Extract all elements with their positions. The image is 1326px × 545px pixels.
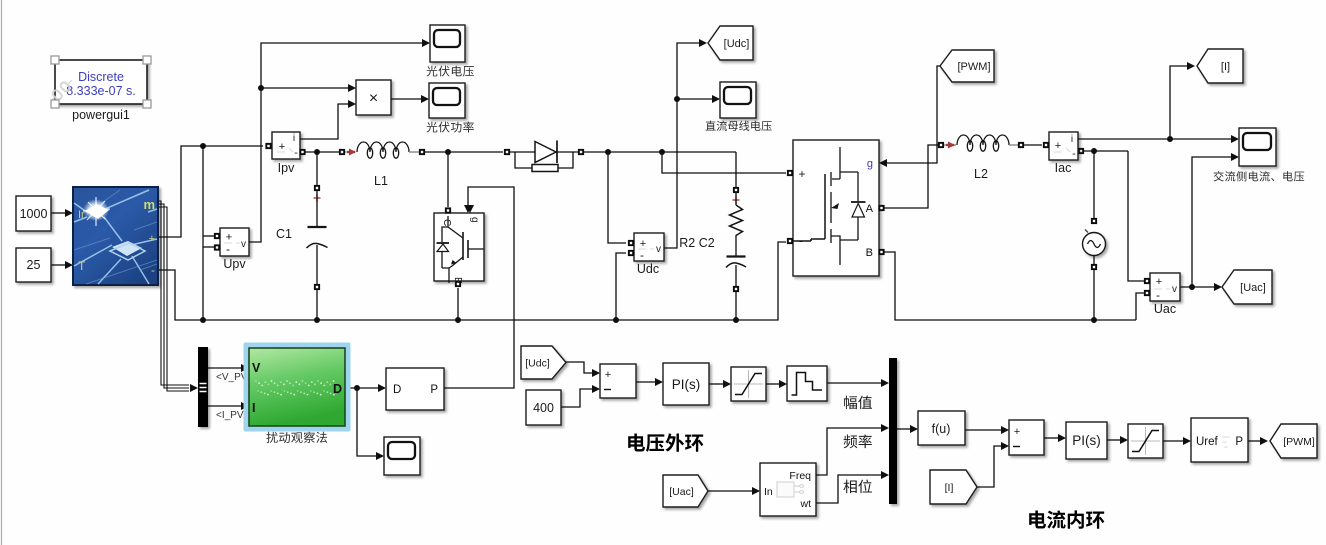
wire: AC rail up to Uac - [1136, 293, 1144, 320]
big label: current inner loop [1029, 510, 1104, 528]
sum block (voltage loop) [600, 364, 636, 398]
svg-text:A: A [866, 203, 874, 215]
wire: MPPT D output to D-P block and scope [347, 384, 386, 460]
svg-text:L2: L2 [974, 167, 988, 181]
svg-text:L1: L1 [374, 174, 388, 188]
svg-text:400: 400 [533, 401, 554, 415]
svg-text:8.333e-07 s.: 8.333e-07 s. [66, 84, 136, 98]
svg-text:[Udc]: [Udc] [724, 38, 750, 50]
RC branch R2 C2 [726, 152, 746, 320]
capacitor C1 [307, 152, 328, 320]
wire: Uref P to goto [PWM] [1248, 437, 1268, 445]
current measurement Ipv [265, 132, 305, 175]
scope: PV voltage [430, 25, 465, 62]
wire: Udc v output to goto [Udc] and DC-bus scope [664, 39, 720, 248]
diode D1 with snubber [504, 141, 584, 172]
wire: L1 to diode node [425, 149, 503, 155]
scope: DC bus voltage [720, 82, 756, 118]
svg-text:-: - [640, 248, 644, 262]
svg-text:f(u): f(u) [932, 422, 951, 436]
svg-text:v: v [1172, 284, 1177, 295]
from tag [I] [930, 470, 977, 504]
wire: sum2 to PI(s)2 [1044, 434, 1066, 442]
svg-text:[Uac]: [Uac] [1240, 282, 1266, 294]
svg-text:Discrete: Discrete [78, 70, 124, 84]
svg-text:-: - [1156, 288, 1160, 302]
wire: PI(s)2 to saturation2 [1107, 436, 1128, 444]
wire: node to Upv inputs and negative rail [200, 146, 215, 323]
svg-text:×: × [369, 90, 378, 107]
PLL block (Freq / wt) [760, 463, 816, 516]
wire: Iac i output to goto [I] and AC scope [1078, 62, 1239, 143]
svg-text:C: C [441, 219, 452, 226]
voltage measurement Upv [214, 228, 249, 271]
svg-text:1000: 1000 [20, 207, 48, 221]
svg-text:[I]: [I] [945, 482, 954, 494]
signal label: phase [843, 479, 872, 493]
svg-text:v: v [656, 244, 661, 255]
current measurement Iac [1043, 132, 1078, 175]
wire: f(u) to sum2 + [965, 426, 1009, 434]
svg-text:-: - [1072, 148, 1076, 160]
wire: node to Udc + [608, 152, 626, 243]
canvas left border [1, 0, 3, 545]
subsystem Uref to P (PWM) [1191, 418, 1248, 462]
wire: saturation to rate block [766, 380, 787, 388]
svg-text:m: m [143, 197, 155, 212]
inductor L1 [339, 142, 425, 158]
svg-text:P: P [430, 384, 438, 396]
wire: constant 400 to sum - [561, 385, 600, 407]
wire: Uac v output to AC scope and goto [Uac] [1180, 153, 1239, 291]
wire: saturation2 to Uref P [1163, 437, 1191, 445]
svg-text:B: B [866, 247, 873, 259]
wire: constant 1000 to PV array Ir [51, 209, 73, 217]
wire: product to PV-power scope [391, 95, 429, 103]
signal label: amplitude [844, 396, 872, 410]
wire: from [I] to sum2 - [977, 442, 1009, 487]
wire: Ipv i output to product [300, 100, 356, 139]
goto tag [PWM] [1270, 424, 1317, 458]
svg-text:-: - [294, 147, 298, 159]
from tag [PWM] (mirrored) [940, 50, 994, 82]
svg-text:[Uac]: [Uac] [669, 486, 694, 498]
mux (amplitude, frequency, phase) [889, 358, 897, 504]
signal label: frequency [844, 434, 872, 448]
wire: D-P PWM output to IGBT gate [444, 187, 514, 388]
svg-text:+: + [279, 141, 285, 153]
svg-text:Udc: Udc [637, 262, 659, 276]
wire: PLL Freq to mux [816, 424, 889, 475]
wire: IGBT emitter to negative rail [457, 288, 459, 320]
svg-text:Freq: Freq [789, 470, 811, 482]
big label: voltage outer loop [628, 433, 703, 451]
svg-text:P: P [1235, 436, 1243, 448]
MPPT subsystem (perturb and observe), selected [244, 343, 351, 432]
svg-text:-: - [226, 242, 230, 256]
svg-text:+: + [798, 167, 805, 181]
svg-text:V: V [252, 361, 261, 375]
PV array block [73, 187, 158, 285]
svg-text:g: g [469, 217, 480, 223]
from tag [Udc] [521, 346, 566, 379]
wire: inverter A output to L2 [884, 145, 938, 208]
svg-text:In: In [764, 486, 773, 498]
function block f(u) [918, 411, 965, 445]
svg-text:C1: C1 [276, 227, 292, 241]
AC voltage source V1 [1083, 230, 1106, 321]
svg-text:Ipv: Ipv [278, 161, 295, 175]
PI controller PI(s) current loop [1066, 422, 1107, 459]
wire: Ipv - to L1 [305, 149, 339, 155]
wire: amplitude to mux [827, 379, 889, 387]
svg-text:Iac: Iac [1055, 161, 1072, 175]
wire: node to inverter + input [662, 152, 786, 173]
svg-text:[PWM]: [PWM] [958, 61, 991, 73]
goto tag [I] [1197, 49, 1243, 83]
wire: PI(s) to saturation [709, 380, 731, 388]
product block (P = U x I) [356, 80, 391, 115]
svg-text:Upv: Upv [223, 257, 246, 271]
svg-text:D: D [393, 384, 401, 396]
svg-text:[PWM]: [PWM] [1283, 436, 1315, 448]
subsystem D to P (PWM generator) [386, 368, 444, 410]
wire: bus selector I_PV to MPPT I [208, 402, 249, 410]
svg-text:powergui1: powergui1 [72, 108, 130, 122]
wire: PV array + to Ipv + (positive DC rail) [158, 143, 263, 237]
svg-text:R2 C2: R2 C2 [679, 236, 714, 250]
svg-text:D: D [333, 382, 342, 396]
wire: bus selector V_PV to MPPT V [208, 364, 249, 372]
svg-text:+: + [1055, 140, 1061, 152]
svg-text:T: T [78, 259, 86, 273]
svg-text:25: 25 [27, 258, 41, 272]
svg-text:Ir: Ir [78, 209, 85, 221]
svg-text:+: + [1014, 426, 1020, 438]
wire: L2 to Iac + [1024, 144, 1042, 146]
svg-text:g: g [867, 158, 873, 170]
saturation block [731, 367, 766, 401]
svg-text:wt: wt [800, 498, 812, 510]
svg-text:[Udc]: [Udc] [525, 358, 550, 370]
svg-text:PI(s): PI(s) [1072, 433, 1101, 448]
voltage measurement Udc [628, 233, 664, 276]
goto tag [Udc] [708, 26, 753, 60]
svg-text:I: I [252, 401, 255, 415]
wire: from [Udc] to sum + [566, 362, 600, 377]
wire: from [PWM] to inverter gate g [879, 66, 940, 167]
svg-text:i: i [293, 133, 295, 144]
wire: sum to PI(s) [636, 378, 663, 386]
scope: AC-side current and voltage [1239, 128, 1276, 166]
wire: node to IGBT collector [447, 152, 449, 207]
wire: from [Uac] to PLL In [708, 487, 760, 495]
constant 1000 (irradiance) [16, 196, 51, 231]
from tag [Uac] [663, 475, 708, 507]
goto tag [Uac] [1222, 270, 1272, 304]
wire: PLL wt to mux [816, 471, 889, 503]
svg-text:+: + [149, 233, 155, 245]
wire: diode to inverter + rail [583, 149, 736, 155]
svg-text:E: E [452, 277, 463, 284]
svg-text:v: v [241, 239, 246, 250]
sum block (current loop) [1009, 420, 1044, 455]
voltage measurement Uac [1144, 273, 1180, 316]
svg-text:i: i [1071, 134, 1073, 145]
svg-text:PI(s): PI(s) [672, 377, 701, 392]
PI controller PI(s) voltage loop [663, 363, 709, 405]
svg-text:Uac: Uac [1154, 302, 1176, 316]
scope (duty cycle) [384, 437, 420, 475]
wire: PV array m measurement bus to bus selector [158, 201, 198, 392]
inverter bridge block [787, 140, 885, 276]
svg-text:Uref: Uref [1196, 436, 1219, 448]
IGBT block [434, 205, 484, 287]
bus selector [198, 347, 208, 427]
wire: PV array - to bottom negative rail [158, 242, 786, 323]
wire: negative rail to Udc - [616, 253, 626, 320]
wire: Upv v output to PV-voltage scope and product [249, 39, 430, 242]
wire: constant 25 to PV array T [51, 261, 73, 269]
svg-text:-: - [151, 263, 155, 277]
svg-text:+: + [1156, 276, 1162, 288]
powergui block powergui1 [51, 56, 151, 122]
svg-text:+: + [605, 369, 611, 381]
wire: Iac - to AC source and Uac + [1078, 148, 1144, 281]
PV array port labels [78, 197, 155, 277]
wire: mux to f(u) [897, 425, 918, 433]
scope: PV power [429, 83, 465, 118]
constant 25 (temperature) [16, 248, 51, 282]
svg-text:[I]: [I] [1221, 61, 1230, 73]
rate transition / hold block [787, 366, 827, 401]
inductor L2 [938, 135, 1024, 151]
constant 400 (DC reference) [526, 390, 561, 425]
saturation block 2 [1128, 424, 1163, 458]
wire: inverter B output to bottom AC rail [884, 252, 1136, 323]
